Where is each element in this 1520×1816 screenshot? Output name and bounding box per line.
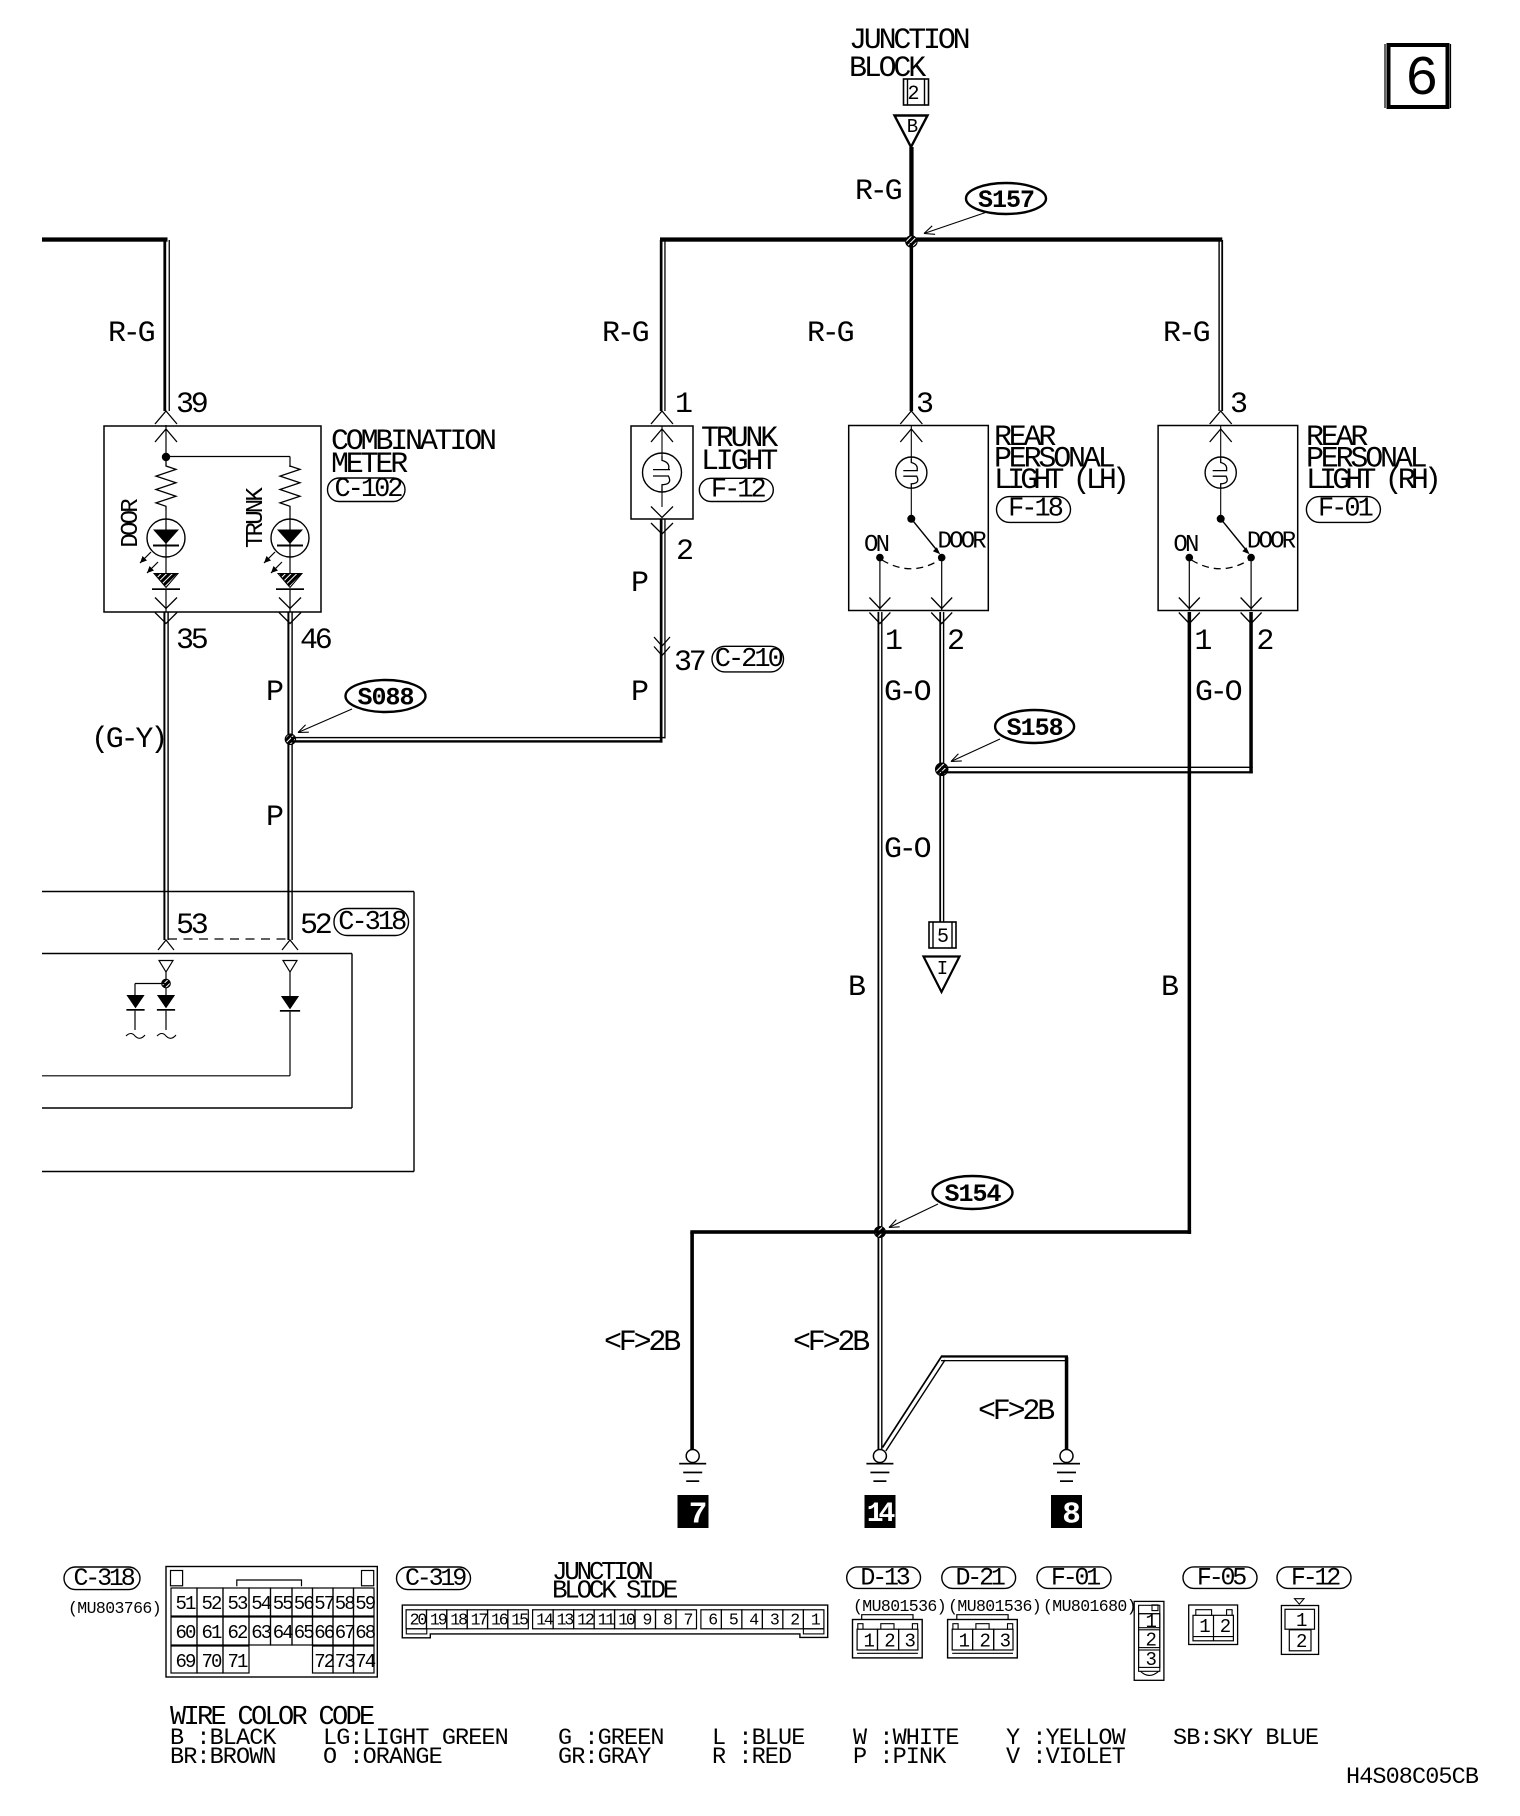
terminal 52 input triangle <box>283 961 297 997</box>
wire P trunk light to splice S088 <box>631 519 705 743</box>
svg-text:B: B <box>907 116 918 138</box>
svg-text:<F>2B: <F>2B <box>604 1326 680 1360</box>
RH pin 1 <box>1179 598 1212 660</box>
junction S157 <box>906 236 917 247</box>
svg-text:H4S08C05CB: H4S08C05CB <box>1346 1764 1479 1791</box>
junction S158 <box>936 763 948 775</box>
svg-text:B: B <box>1161 971 1178 1005</box>
connector label C-318 <box>334 908 409 938</box>
wire 2B to ground 7 <box>604 1232 694 1450</box>
pin 46 <box>279 598 332 659</box>
LED trunk <box>264 510 309 573</box>
node inside unit <box>135 979 170 988</box>
svg-text:2: 2 <box>676 535 692 569</box>
svg-text:2: 2 <box>979 1631 990 1653</box>
svg-text:58: 58 <box>335 1593 356 1615</box>
svg-text:I: I <box>937 958 947 980</box>
svg-text:13: 13 <box>557 1611 574 1630</box>
svg-text:GR:GRAY: GR:GRAY <box>558 1744 651 1771</box>
svg-text:3: 3 <box>1230 388 1247 422</box>
svg-text:G-O: G-O <box>884 833 931 867</box>
svg-text:G-O: G-O <box>1195 676 1242 710</box>
svg-text:69: 69 <box>175 1651 196 1673</box>
splice S154 label <box>889 1176 1013 1228</box>
svg-text:54: 54 <box>251 1593 272 1615</box>
svg-text:F-12: F-12 <box>1291 1563 1340 1592</box>
svg-text:(MU801536): (MU801536) <box>853 1597 946 1616</box>
svg-text:64: 64 <box>273 1622 294 1644</box>
svg-text:66: 66 <box>314 1622 335 1644</box>
wire G-O RH pin2 to splice horizontal <box>1195 612 1253 773</box>
svg-text:R-G: R-G <box>807 317 854 351</box>
junction S154 <box>874 1227 885 1238</box>
svg-text:35: 35 <box>176 624 208 658</box>
svg-text:2: 2 <box>947 625 963 659</box>
svg-text:TRUNK: TRUNK <box>243 487 270 548</box>
svg-text:2: 2 <box>1256 625 1272 659</box>
connector F-05 pinout label <box>1183 1563 1257 1592</box>
node inside meter <box>162 453 290 467</box>
svg-text:18: 18 <box>450 1611 467 1630</box>
RH pin 2 <box>1241 598 1273 660</box>
svg-text:R-G: R-G <box>108 317 155 351</box>
svg-text:<F>2B: <F>2B <box>793 1326 869 1360</box>
rear personal light RH box <box>1158 421 1437 611</box>
terminal 53 input triangle <box>159 961 173 981</box>
resistor (trunk lamp) <box>280 466 300 510</box>
svg-text:65: 65 <box>294 1622 315 1644</box>
junction S088 <box>285 734 295 744</box>
svg-text:S157: S157 <box>978 186 1034 215</box>
ETACS unit outer box <box>42 892 414 1172</box>
connector C-319 pinout drawing <box>402 1605 827 1638</box>
diode D1 <box>126 984 145 1039</box>
splice S158 label <box>951 710 1074 762</box>
svg-text:17: 17 <box>471 1611 488 1630</box>
svg-text:12: 12 <box>577 1611 594 1630</box>
svg-text:P: P <box>631 676 648 710</box>
svg-text:R-G: R-G <box>855 175 902 209</box>
svg-text:D-21: D-21 <box>955 1563 1004 1592</box>
svg-text:(MU801536): (MU801536) <box>948 1597 1041 1616</box>
svg-text:C-319: C-319 <box>405 1564 466 1593</box>
svg-text:9: 9 <box>642 1611 651 1630</box>
svg-text:8: 8 <box>663 1611 672 1630</box>
svg-text:62: 62 <box>227 1622 248 1644</box>
svg-text:1: 1 <box>1296 1610 1307 1632</box>
connector C-318 pinout drawing <box>166 1567 377 1678</box>
svg-text:53: 53 <box>227 1593 248 1615</box>
svg-text:R-G: R-G <box>1163 317 1210 351</box>
trunk light pin 2 <box>631 507 692 602</box>
wire (G-Y) pin35 to pin53 <box>91 612 169 940</box>
RH bulb <box>1205 426 1236 489</box>
svg-text:2: 2 <box>790 1611 799 1630</box>
svg-text:(MU803766): (MU803766) <box>68 1599 161 1618</box>
svg-text:ON: ON <box>864 532 889 559</box>
splice S088 label <box>298 680 426 733</box>
connector F-01 pinout drawing <box>1134 1601 1164 1680</box>
svg-text:BR:BROWN: BR:BROWN <box>170 1744 276 1771</box>
svg-text:1: 1 <box>864 1631 875 1653</box>
svg-text:20: 20 <box>410 1611 427 1630</box>
pin 35 <box>155 598 208 659</box>
splice S157 label <box>924 183 1046 234</box>
svg-text:52: 52 <box>201 1593 222 1615</box>
connector label F-18 <box>997 495 1071 525</box>
svg-text:3: 3 <box>904 1631 915 1653</box>
svg-text:C-318: C-318 <box>73 1564 134 1593</box>
svg-text:57: 57 <box>314 1593 334 1615</box>
svg-text:74: 74 <box>355 1651 376 1673</box>
ground 14 <box>865 1450 896 1531</box>
svg-text:2: 2 <box>884 1631 895 1653</box>
wire R-G to rear personal light RH <box>1163 240 1247 442</box>
svg-text:C-210: C-210 <box>715 645 783 675</box>
connector label C-210 <box>712 645 784 675</box>
svg-text:F-01: F-01 <box>1051 1563 1100 1592</box>
svg-text:14: 14 <box>536 1611 554 1630</box>
svg-text:39: 39 <box>176 388 207 422</box>
LH pin 2 <box>931 598 963 660</box>
svg-text:P :PINK: P :PINK <box>853 1744 947 1771</box>
junction block connector 5 <box>929 922 956 949</box>
rear personal light LH box <box>849 421 1125 611</box>
svg-text:60: 60 <box>175 1622 196 1644</box>
svg-text:52: 52 <box>300 909 331 943</box>
junction block connector 2 <box>904 79 929 106</box>
connector F-01 pinout label <box>1037 1563 1136 1616</box>
svg-text:55: 55 <box>273 1593 294 1615</box>
diode D2 <box>157 988 176 1038</box>
svg-text:56: 56 <box>294 1593 315 1615</box>
connector F-12 pinout label <box>1277 1563 1351 1592</box>
wire 2B to ground 8 horizontal <box>941 1355 1068 1429</box>
svg-text:LIGHT (RH): LIGHT (RH) <box>1306 464 1437 498</box>
wire R-G bus left segment <box>42 237 168 241</box>
connector C-318 pinout label <box>64 1564 161 1618</box>
svg-text:37: 37 <box>674 646 705 680</box>
wire G-O splice horizontal <box>941 767 1253 774</box>
wire R-G to rear personal light LH <box>807 243 933 442</box>
svg-text:1: 1 <box>675 388 692 422</box>
svg-text:F-12: F-12 <box>711 476 766 506</box>
indicator triangle trunk <box>276 574 304 613</box>
svg-text:6: 6 <box>708 1611 717 1630</box>
ground 7 <box>678 1450 709 1533</box>
connector D-21 pinout drawing <box>948 1615 1018 1658</box>
svg-text:P: P <box>266 801 283 835</box>
svg-text:SB:SKY BLUE: SB:SKY BLUE <box>1173 1725 1318 1752</box>
junction block label <box>849 24 969 86</box>
connector C-318 pin row <box>158 909 331 950</box>
connector F-05 pinout drawing <box>1189 1605 1238 1645</box>
LH lamp switch <box>864 488 986 610</box>
junction block terminal I triangle <box>924 957 960 993</box>
svg-text:B: B <box>848 971 865 1005</box>
connector label F-01 <box>1306 495 1380 525</box>
wire color code legend <box>170 1703 1318 1771</box>
ground 8 <box>1051 1450 1082 1533</box>
svg-text:DOOR: DOOR <box>118 499 145 548</box>
svg-text:63: 63 <box>251 1622 272 1644</box>
svg-text:LIGHT (LH): LIGHT (LH) <box>994 464 1125 498</box>
svg-text:3: 3 <box>916 388 933 422</box>
indicator triangle door <box>152 574 180 613</box>
svg-text:6: 6 <box>1405 47 1439 111</box>
resistor (door lamp) <box>156 460 176 510</box>
svg-text:5: 5 <box>729 1611 738 1630</box>
svg-text:46: 46 <box>300 624 332 658</box>
wire R-G to trunk light <box>602 240 692 442</box>
svg-text:F-01: F-01 <box>1318 495 1373 525</box>
svg-text:F-05: F-05 <box>1197 1563 1246 1592</box>
svg-text:ON: ON <box>1173 532 1198 559</box>
svg-text:G-O: G-O <box>884 676 931 710</box>
wire P splice to trunk light <box>291 737 666 743</box>
svg-text:R-G: R-G <box>602 317 649 351</box>
connector D-13 pinout label <box>847 1563 946 1616</box>
wire B ground bus <box>690 1230 1191 1234</box>
svg-text:1: 1 <box>959 1631 970 1653</box>
wire R-G from junction block <box>855 147 914 238</box>
diode D3 <box>280 996 300 1076</box>
svg-text:DOOR: DOOR <box>938 529 987 556</box>
svg-text:68: 68 <box>355 1622 376 1644</box>
wire B RH pin1 to splice S154 <box>1161 612 1191 1234</box>
connector D-21 pinout label <box>942 1563 1041 1616</box>
svg-text:53: 53 <box>176 909 208 943</box>
connector label C-102 <box>328 475 406 505</box>
svg-text:O :ORANGE: O :ORANGE <box>323 1744 442 1771</box>
svg-text:3: 3 <box>1000 1631 1011 1653</box>
svg-text:16: 16 <box>491 1611 508 1630</box>
LH bulb <box>896 426 927 489</box>
svg-text:P: P <box>631 567 648 601</box>
svg-text:C-102: C-102 <box>334 475 402 505</box>
svg-text:1: 1 <box>885 625 902 659</box>
svg-text:(MU801680): (MU801680) <box>1043 1597 1136 1616</box>
svg-text:P: P <box>266 676 283 710</box>
svg-text:59: 59 <box>355 1593 376 1615</box>
trunk light box <box>631 422 778 519</box>
combination meter box <box>104 425 495 612</box>
RH lamp switch <box>1173 488 1295 610</box>
LH pin 1 <box>869 598 902 660</box>
svg-text:67: 67 <box>335 1622 355 1644</box>
wire P pin46 to pin52 <box>266 612 293 940</box>
svg-text:5: 5 <box>937 926 948 949</box>
connector C-319 pinout label <box>397 1557 678 1606</box>
svg-text:15: 15 <box>511 1611 528 1630</box>
connector F-12 pinout drawing <box>1281 1599 1318 1655</box>
connector D-13 pinout drawing <box>853 1615 923 1658</box>
svg-text:2: 2 <box>1220 1616 1231 1638</box>
svg-text:F-18: F-18 <box>1008 495 1063 525</box>
wire R-G bus main <box>660 237 1222 241</box>
svg-text:R :RED: R :RED <box>712 1744 791 1771</box>
svg-text:BLOCK SIDE: BLOCK SIDE <box>552 1576 678 1606</box>
svg-text:72: 72 <box>314 1651 335 1673</box>
junction block terminal B triangle <box>895 116 928 148</box>
svg-text:<F>2B: <F>2B <box>978 1395 1054 1429</box>
svg-text:10: 10 <box>618 1611 635 1630</box>
svg-text:61: 61 <box>201 1622 222 1644</box>
svg-text:(G-Y): (G-Y) <box>91 723 165 757</box>
svg-text:V :VIOLET: V :VIOLET <box>1006 1744 1126 1771</box>
svg-text:2: 2 <box>907 83 918 106</box>
svg-text:7: 7 <box>683 1611 692 1630</box>
wire diagonal to ground 14 <box>883 1356 946 1451</box>
wire drop to ground 8 <box>1065 1357 1069 1450</box>
svg-text:LIGHT: LIGHT <box>701 445 777 479</box>
svg-text:19: 19 <box>430 1611 447 1630</box>
svg-text:1: 1 <box>1199 1616 1210 1638</box>
ETACS unit inner box <box>42 954 352 1109</box>
svg-text:S154: S154 <box>944 1180 1001 1209</box>
wire to internal circuit <box>42 1075 290 1077</box>
svg-text:73: 73 <box>335 1651 356 1673</box>
svg-text:1: 1 <box>1194 625 1211 659</box>
wire G-O splice to junction block 5 <box>884 773 944 922</box>
svg-text:D-13: D-13 <box>860 1563 909 1592</box>
svg-text:3: 3 <box>1145 1649 1156 1671</box>
wire R-G to combination meter <box>108 240 207 457</box>
svg-text:2: 2 <box>1296 1631 1307 1653</box>
svg-text:DOOR: DOOR <box>1247 529 1296 556</box>
svg-text:C-318: C-318 <box>338 908 406 938</box>
wire B LH pin1 to ground 14 <box>848 612 883 1450</box>
svg-text:S158: S158 <box>1007 714 1063 743</box>
svg-text:S088: S088 <box>357 684 413 713</box>
svg-text:51: 51 <box>175 1593 196 1615</box>
page number 6 box <box>1385 44 1451 111</box>
connector label F-12 <box>699 476 773 506</box>
svg-text:71: 71 <box>227 1651 248 1673</box>
trunk light bulb <box>643 426 682 507</box>
svg-text:BLOCK: BLOCK <box>849 52 926 86</box>
svg-text:11: 11 <box>598 1611 616 1630</box>
wire G-O LH pin2 to splice S158 <box>884 612 944 769</box>
svg-text:70: 70 <box>201 1651 222 1673</box>
svg-text:3: 3 <box>770 1611 779 1630</box>
LED door <box>140 510 185 573</box>
